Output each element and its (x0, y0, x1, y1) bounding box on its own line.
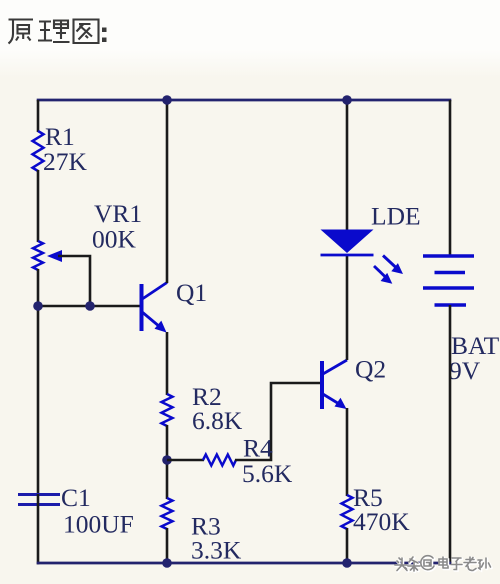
wire R5 to bottom (346, 528, 349, 563)
capacitor C1 (18, 493, 60, 496)
transistor Q1 (142, 283, 168, 333)
node wiper drop junction (85, 301, 95, 311)
node R4 junction (162, 455, 172, 465)
原 (9, 20, 34, 44)
wire right vertical upper (449, 100, 452, 256)
svg-text:Q1: Q1 (176, 278, 207, 307)
LED D1 LDE (321, 230, 374, 254)
svg-text:9V: 9V (449, 356, 481, 385)
node top mid junction (162, 95, 172, 105)
potentiometer VR1 (33, 241, 43, 270)
wire R3 to bottom (166, 528, 169, 563)
wire left between R1 and VR1 (37, 170, 40, 242)
wire mid vertical R2-R3 (166, 425, 169, 499)
svg-text:6.8K: 6.8K (192, 406, 243, 435)
svg-text:3.3K: 3.3K (191, 536, 242, 565)
： (102, 28, 107, 43)
node bottom R5 junction (342, 558, 352, 568)
wire Q2 emitter down (346, 408, 349, 496)
node top LED junction (342, 95, 352, 105)
LED emission arrow 2 (374, 266, 386, 278)
wire bottom rail (37, 562, 452, 565)
svg-text:100UF: 100UF (63, 510, 134, 539)
wire LED anode from top (346, 100, 349, 231)
battery BAT (423, 256, 474, 305)
svg-text:LDE: LDE (371, 202, 421, 231)
wire Q1 collector up (166, 100, 169, 283)
svg-text:27K: 27K (43, 147, 88, 176)
wire right vertical lower (449, 305, 452, 564)
wire Q1 emitter down (166, 332, 169, 395)
wire VR1 wiper (58, 256, 90, 306)
wire base rail to Q1 (37, 305, 140, 308)
wire C1 to bottom (37, 494, 40, 564)
node left wiper junction (33, 301, 43, 311)
svg-text:C1: C1 (61, 483, 91, 512)
title 原理图： (9, 20, 107, 44)
图 (74, 20, 99, 44)
resistor R3 (162, 498, 173, 529)
node bottom mid junction (162, 558, 172, 568)
resistor R4 (167, 459, 204, 462)
wire left vertical to C1 (37, 269, 40, 494)
wire Q2 collector up to LED (346, 254, 349, 360)
watermark 头条@电子老孙 (hand-drawn glyph strokes) (395, 556, 491, 572)
LED emission arrow 1 (383, 256, 397, 269)
wire top rail (37, 99, 452, 102)
wire left vertical upper (37, 100, 40, 132)
resistor R5 (342, 495, 353, 529)
resistor R1 (33, 131, 44, 171)
transistor Q2 (322, 360, 347, 409)
svg-text:470K: 470K (353, 507, 410, 536)
svg-text:00K: 00K (92, 225, 137, 254)
理 (38, 21, 70, 43)
resistor R2 (162, 394, 173, 426)
svg-text:5.6K: 5.6K (242, 459, 293, 488)
svg-text:Q2: Q2 (355, 355, 386, 384)
